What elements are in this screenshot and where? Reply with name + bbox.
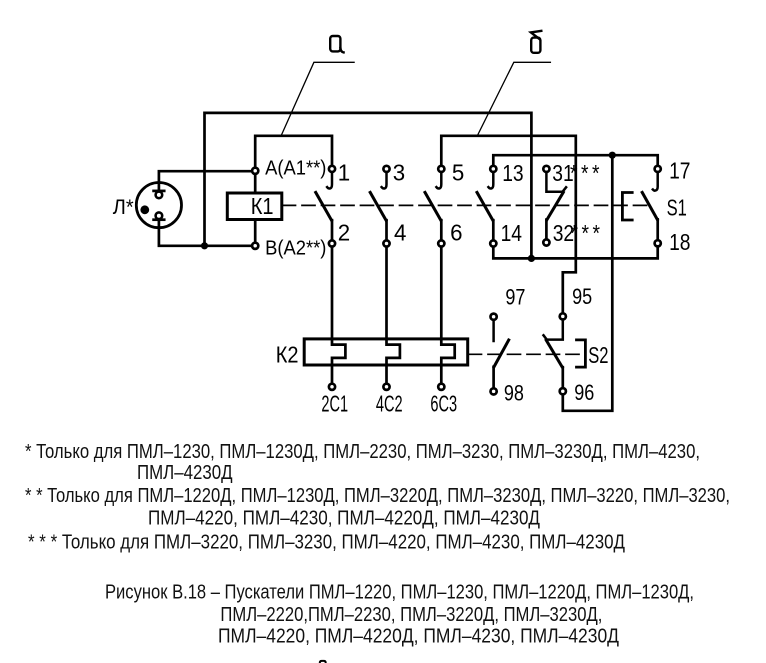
wire bus b	[441, 136, 576, 313]
svg-text:ПМЛ–4220, ПМЛ–4230, ПМЛ–4220Д,: ПМЛ–4220, ПМЛ–4230, ПМЛ–4220Д, ПМЛ–4230Д	[148, 506, 540, 529]
K2 contact 95-96 (NC) with S2	[544, 313, 566, 394]
svg-text:14: 14	[501, 220, 522, 246]
K2 contact 97-98	[491, 314, 509, 395]
junction dot top rail	[609, 152, 616, 159]
svg-text:К2: К2	[276, 341, 299, 368]
svg-text:17: 17	[669, 158, 690, 184]
cropped next-line artifact	[320, 661, 326, 663]
K2 heater element phase 2	[387, 339, 400, 384]
auxiliary contact 31-32 (NC)	[543, 166, 566, 246]
terminal 2C1	[329, 384, 335, 390]
svg-text:ПМЛ–4220, ПМЛ–4220Д, ПМЛ–4230: ПМЛ–4220, ПМЛ–4220Д, ПМЛ–4230, ПМЛ–4230Д	[218, 624, 619, 647]
svg-text:S1: S1	[667, 196, 687, 221]
svg-text:* Только для ПМЛ–1230, ПМЛ–12: * Только для ПМЛ–1230, ПМЛ–1230Д, ПМЛ–22…	[25, 440, 700, 463]
svg-text:6С3: 6С3	[430, 391, 457, 417]
svg-text:К1: К1	[251, 193, 274, 220]
leader line a	[281, 62, 354, 136]
junction dot bottom rail	[528, 255, 535, 262]
lamp Л*	[136, 183, 181, 228]
svg-text:97: 97	[505, 286, 525, 310]
label б (node b)	[531, 31, 541, 53]
svg-text:***: ***	[570, 160, 603, 186]
label а (node a)	[330, 36, 343, 52]
S1 manual actuator bracket	[622, 193, 632, 221]
svg-text:В(А2**): В(А2**)	[265, 238, 326, 260]
thermal relay K2	[304, 339, 468, 365]
aux box bottom rail	[493, 247, 657, 259]
svg-text:***: ***	[571, 220, 604, 246]
svg-text:98: 98	[504, 382, 524, 406]
svg-text:96: 96	[574, 381, 594, 405]
contact K1 pole 5-6	[425, 166, 444, 339]
S2 manual actuator bracket	[577, 340, 586, 367]
svg-text:18: 18	[669, 229, 690, 255]
wire lamp top to terminal A	[159, 171, 252, 191]
svg-text:3: 3	[393, 159, 405, 186]
dashed actuator line K2	[469, 353, 585, 355]
terminal 4C2	[383, 384, 389, 390]
wire bus a	[255, 136, 332, 168]
svg-text:А(А1**): А(А1**)	[265, 158, 326, 180]
contact K1 pole 1-2	[316, 166, 335, 339]
terminal B(A2**)	[252, 243, 258, 249]
terminal 6C3	[438, 384, 444, 390]
svg-text:* * * Только для ПМЛ–3220, ПМ: * * * Только для ПМЛ–3220, ПМЛ–3230, ПМЛ…	[28, 530, 625, 553]
svg-text:* * Только для ПМЛ–1220Д, ПМЛ: * * Только для ПМЛ–1220Д, ПМЛ–1230Д, ПМЛ…	[25, 484, 730, 507]
dashed actuator line K1	[283, 204, 650, 206]
K2 heater element phase 3	[441, 339, 454, 384]
svg-text:1: 1	[338, 159, 350, 186]
wire S1 right vertical to S2 return	[563, 155, 613, 411]
junction dot lamp bottom	[201, 242, 208, 249]
contact K1 pole 3-4	[370, 166, 389, 339]
svg-text:4: 4	[394, 219, 407, 246]
svg-text:Л*: Л*	[113, 195, 134, 219]
wire lamp bottom to terminal B	[159, 220, 252, 246]
svg-text:6: 6	[450, 219, 462, 246]
svg-text:ПМЛ–2220,ПМЛ–2230, ПМЛ–3220Д,: ПМЛ–2220,ПМЛ–2230, ПМЛ–3220Д, ПМЛ–3230Д,	[220, 603, 602, 626]
svg-text:Рисунок В.18 – Пускатели ПМЛ–1: Рисунок В.18 – Пускатели ПМЛ–1220, ПМЛ–1…	[105, 580, 694, 603]
svg-text:95: 95	[572, 285, 592, 309]
coil K1	[227, 174, 281, 243]
svg-text:5: 5	[452, 159, 464, 186]
K2 heater element phase 1	[332, 339, 345, 384]
svg-text:2С1: 2С1	[321, 391, 348, 417]
terminal A(A1**)	[252, 168, 258, 174]
leader line b	[477, 62, 550, 136]
svg-text:4С2: 4С2	[376, 391, 403, 417]
svg-text:13: 13	[502, 160, 523, 186]
aux box top rail	[493, 155, 657, 166]
svg-text:ПМЛ–4230Д: ПМЛ–4230Д	[137, 461, 233, 484]
switch S1 contact 17-18	[642, 166, 661, 247]
svg-text:2: 2	[338, 219, 350, 246]
auxiliary contact 13-14	[477, 166, 496, 247]
svg-text:S2: S2	[588, 343, 608, 368]
wire top link (net between B side and aux rail)	[205, 113, 532, 259]
